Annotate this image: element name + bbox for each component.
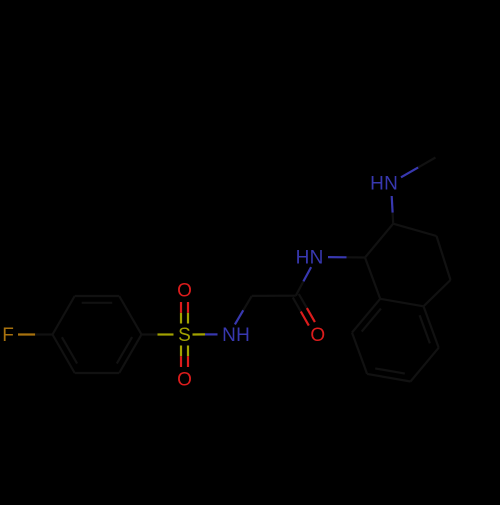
svg-text:F: F [2, 325, 14, 346]
svg-text:H: H [236, 325, 250, 346]
svg-text:N: N [310, 248, 324, 269]
svg-text:H: H [370, 174, 384, 195]
svg-text:O: O [177, 281, 192, 302]
svg-text:N: N [222, 325, 236, 346]
svg-text:O: O [310, 325, 325, 346]
svg-text:H: H [296, 248, 310, 269]
svg-text:O: O [177, 370, 192, 391]
svg-text:S: S [178, 325, 191, 346]
svg-text:N: N [384, 174, 398, 195]
